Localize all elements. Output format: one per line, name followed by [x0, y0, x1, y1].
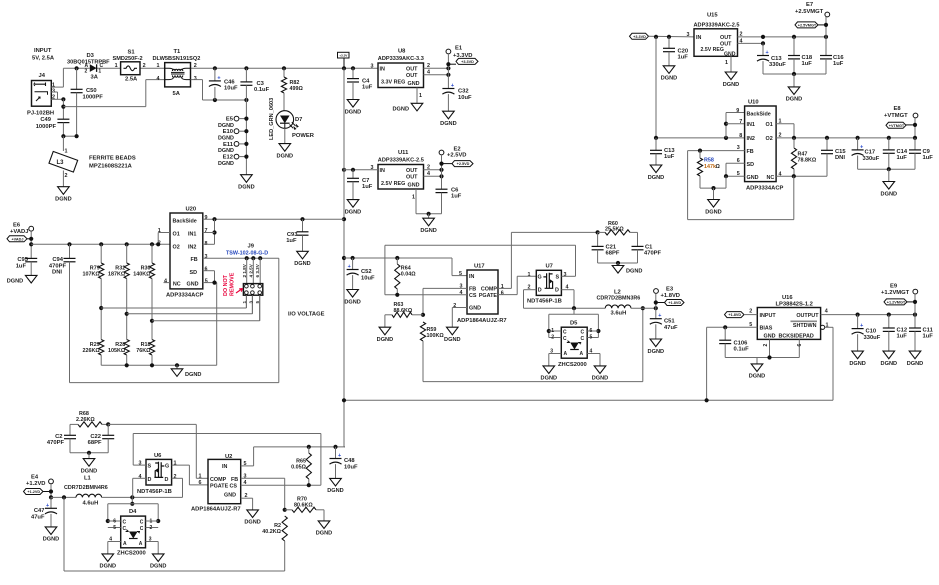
svg-text:ADP1864AUJZ-R7: ADP1864AUJZ-R7	[457, 318, 507, 324]
svg-text:U7: U7	[546, 264, 553, 270]
svg-text:O2: O2	[173, 244, 180, 250]
svg-text:CDR7D2BMN4R6: CDR7D2BMN4R6	[64, 485, 108, 491]
svg-text:2 1.8V: 2 1.8V	[242, 263, 247, 277]
svg-text:DGND: DGND	[907, 361, 923, 367]
svg-text:ADP3339AKC-3.3: ADP3339AKC-3.3	[378, 56, 424, 62]
svg-text:CS: CS	[230, 483, 238, 489]
svg-text:147k: 147k	[704, 164, 716, 170]
svg-text:BackSide: BackSide	[173, 218, 197, 224]
svg-text:U20: U20	[186, 207, 197, 213]
svg-text:1000PF: 1000PF	[83, 95, 104, 101]
svg-text:+: +	[217, 75, 220, 81]
svg-text:6: 6	[113, 518, 116, 524]
svg-text:ADP3339AKC-2.5: ADP3339AKC-2.5	[378, 158, 424, 164]
svg-text:+: +	[658, 313, 661, 319]
svg-text:0.1uF: 0.1uF	[734, 347, 750, 353]
svg-text:1: 1	[150, 518, 153, 524]
svg-text:5: 5	[205, 279, 208, 285]
svg-text:C49: C49	[40, 117, 51, 123]
svg-text:40.2KΩ: 40.2KΩ	[262, 529, 281, 535]
svg-text:3: 3	[687, 32, 690, 38]
svg-text:D: D	[555, 288, 559, 294]
svg-text:DGND: DGND	[218, 148, 234, 154]
svg-text:7: 7	[739, 119, 742, 125]
svg-text:10uF: 10uF	[458, 95, 472, 101]
svg-text:E5: E5	[226, 117, 234, 123]
svg-text:4: 4	[157, 76, 160, 82]
svg-text:FB: FB	[231, 477, 238, 483]
svg-text:S: S	[148, 464, 152, 470]
svg-text:+1.8VD: +1.8VD	[728, 313, 741, 317]
svg-text:BIAS: BIAS	[760, 326, 773, 332]
svg-text:D4: D4	[129, 509, 137, 515]
svg-text:5A: 5A	[173, 91, 181, 97]
svg-text:+1.8VD: +1.8VD	[668, 301, 681, 305]
svg-text:DGND: DGND	[218, 123, 234, 129]
svg-text:470PF: 470PF	[47, 440, 65, 446]
svg-text:IN: IN	[380, 67, 385, 73]
svg-text:D3: D3	[87, 53, 95, 59]
svg-text:E9: E9	[890, 284, 898, 290]
svg-text:D: D	[148, 477, 152, 483]
svg-text:FB: FB	[191, 257, 198, 263]
svg-text:2: 2	[143, 63, 146, 69]
svg-text:DGND: DGND	[7, 278, 23, 284]
svg-text:ADP3334ACP: ADP3334ACP	[166, 293, 204, 299]
svg-text:DGND: DGND	[327, 488, 343, 494]
svg-text:1: 1	[528, 272, 531, 278]
svg-text:C22: C22	[90, 434, 101, 440]
svg-text:1: 1	[98, 68, 101, 74]
svg-text:2: 2	[150, 525, 153, 531]
svg-text:+VADJ: +VADJ	[10, 229, 28, 235]
svg-text:E10: E10	[223, 129, 233, 135]
svg-text:1uF: 1uF	[678, 55, 689, 61]
svg-text:330uF: 330uF	[769, 62, 786, 68]
svg-text:68PF: 68PF	[88, 440, 102, 446]
svg-text:GND: GND	[469, 306, 481, 312]
svg-text:2.5A: 2.5A	[125, 76, 138, 82]
svg-text:MPZ1608S221A: MPZ1608S221A	[89, 164, 133, 170]
svg-text:D: D	[165, 477, 169, 483]
svg-text:DGND: DGND	[43, 537, 59, 543]
svg-text:DGND: DGND	[244, 520, 260, 526]
svg-text:1: 1	[725, 60, 728, 66]
svg-text:E11: E11	[223, 142, 234, 148]
svg-text:DGND: DGND	[316, 531, 332, 537]
svg-text:U2: U2	[225, 454, 232, 460]
svg-text:+2.5VD: +2.5VD	[447, 153, 467, 159]
svg-text:499Ω: 499Ω	[290, 86, 304, 92]
svg-text:1uF: 1uF	[802, 61, 813, 67]
svg-text:+3.3VD: +3.3VD	[461, 60, 474, 64]
svg-text:0.1uF: 0.1uF	[254, 87, 270, 93]
svg-text:+2.5VD: +2.5VD	[457, 162, 470, 166]
svg-text:IN2: IN2	[747, 136, 755, 142]
svg-text:GND: GND	[408, 81, 420, 87]
svg-text:IN: IN	[696, 35, 701, 41]
svg-text:1uF: 1uF	[362, 85, 373, 91]
svg-text:DGND: DGND	[150, 564, 166, 570]
svg-text:1uF: 1uF	[16, 264, 27, 270]
svg-text:105KΩ: 105KΩ	[108, 348, 126, 354]
svg-text:U11: U11	[398, 150, 409, 156]
svg-text:5: 5	[459, 271, 462, 277]
svg-text:226KΩ: 226KΩ	[82, 348, 100, 354]
svg-text:1uF: 1uF	[451, 194, 462, 200]
svg-text:INPUT: INPUT	[34, 48, 52, 54]
svg-text:IN2: IN2	[188, 244, 196, 250]
svg-text:INPUT: INPUT	[760, 313, 777, 319]
svg-text:C48: C48	[344, 458, 355, 464]
svg-text:1uF: 1uF	[897, 155, 908, 161]
svg-text:A: A	[139, 541, 143, 547]
svg-text:30BQ015TRPBF: 30BQ015TRPBF	[67, 59, 110, 65]
svg-text:9: 9	[205, 215, 208, 221]
svg-text:OUT: OUT	[406, 168, 418, 174]
svg-text:DGND: DGND	[440, 121, 456, 127]
svg-text:+VTMGT: +VTMGT	[884, 113, 908, 119]
svg-text:DGND: DGND	[238, 185, 254, 191]
svg-text:C51: C51	[664, 318, 675, 324]
svg-text:3: 3	[248, 301, 253, 304]
svg-text:9: 9	[736, 108, 739, 114]
svg-text:+1.2VMGT: +1.2VMGT	[887, 301, 906, 305]
svg-text:330uF: 330uF	[864, 335, 881, 341]
svg-text:2: 2	[194, 63, 197, 69]
svg-text:R58: R58	[704, 158, 714, 164]
svg-text:D: D	[538, 288, 542, 294]
svg-text:COMP: COMP	[481, 287, 498, 293]
svg-text:NDT456P-1B: NDT456P-1B	[527, 299, 562, 305]
svg-text:DNI: DNI	[835, 155, 845, 161]
svg-text:PJ-102BH: PJ-102BH	[27, 111, 54, 117]
svg-text:IN1: IN1	[188, 231, 196, 237]
svg-text:C94: C94	[52, 257, 63, 263]
svg-text:C: C	[563, 336, 567, 342]
svg-text:88.6KΩ: 88.6KΩ	[394, 308, 413, 314]
svg-text:DGND: DGND	[420, 228, 436, 234]
svg-text:1: 1	[501, 284, 504, 290]
svg-text:G: G	[538, 274, 542, 280]
svg-text:E12: E12	[223, 155, 233, 161]
svg-text:C95: C95	[17, 257, 28, 263]
svg-text:A: A	[564, 351, 568, 357]
svg-text:6 3.3V: 6 3.3V	[255, 263, 260, 277]
svg-text:6: 6	[501, 290, 504, 296]
svg-text:O2: O2	[766, 136, 773, 142]
svg-text:DGND: DGND	[344, 299, 360, 305]
svg-text:C10: C10	[866, 329, 877, 335]
svg-text:C2: C2	[55, 434, 62, 440]
svg-text:470PF: 470PF	[644, 251, 662, 257]
svg-text:LP38842S-1.2: LP38842S-1.2	[776, 301, 813, 307]
svg-text:8: 8	[739, 133, 742, 139]
svg-text:BCKSIDEPAD: BCKSIDEPAD	[779, 334, 814, 340]
svg-text:2: 2	[763, 344, 769, 347]
svg-text:+2.5VMGT: +2.5VMGT	[795, 9, 824, 15]
svg-text:+: +	[766, 50, 769, 56]
svg-text:S: S	[556, 274, 560, 280]
svg-text:107KΩ: 107KΩ	[82, 272, 100, 278]
svg-text:I/O VOLTAGE: I/O VOLTAGE	[288, 312, 325, 318]
svg-text:L3: L3	[57, 160, 65, 166]
svg-text:1: 1	[65, 149, 68, 155]
svg-text:6: 6	[590, 328, 593, 334]
svg-text:+2.5VMGT: +2.5VMGT	[798, 24, 817, 28]
svg-text:+3.3VD: +3.3VD	[633, 35, 646, 39]
svg-text:REMOVE: REMOVE	[230, 272, 236, 296]
svg-text:3: 3	[205, 254, 208, 260]
svg-text:GND: GND	[764, 334, 776, 340]
svg-text:NC: NC	[173, 281, 181, 287]
svg-text:D5: D5	[570, 321, 578, 327]
svg-text:J9: J9	[248, 244, 255, 250]
svg-text:5: 5	[113, 525, 116, 531]
svg-text:+: +	[451, 83, 454, 89]
svg-text:DGND: DGND	[849, 361, 865, 367]
svg-text:3: 3	[737, 145, 740, 151]
svg-text:O1: O1	[173, 231, 180, 237]
svg-text:ZHCS2000: ZHCS2000	[117, 551, 146, 557]
svg-text:+: +	[860, 144, 863, 150]
svg-text:DGND: DGND	[294, 261, 310, 267]
svg-text:E4: E4	[31, 475, 39, 481]
svg-text:GND: GND	[187, 281, 199, 287]
svg-text:A: A	[123, 541, 127, 547]
svg-text:1: 1	[419, 93, 422, 99]
svg-text:1000PF: 1000PF	[36, 124, 57, 130]
svg-text:DGND: DGND	[218, 136, 234, 142]
svg-text:+1.2VD: +1.2VD	[26, 481, 46, 487]
svg-text:DGND: DGND	[218, 161, 234, 167]
svg-text:1uF: 1uF	[833, 61, 844, 67]
svg-text:6: 6	[199, 480, 202, 486]
svg-text:IN: IN	[380, 168, 385, 174]
svg-text:1uF: 1uF	[923, 334, 934, 340]
svg-text:4 2.5V: 4 2.5V	[248, 263, 253, 277]
svg-text:1: 1	[242, 301, 247, 304]
svg-text:80.6KΩ: 80.6KΩ	[294, 503, 313, 509]
svg-text:3: 3	[371, 63, 374, 69]
svg-text:3: 3	[564, 272, 567, 278]
svg-text:4: 4	[164, 279, 167, 285]
svg-text:GND: GND	[224, 493, 236, 499]
svg-text:2: 2	[65, 173, 68, 179]
svg-text:OUT: OUT	[720, 35, 732, 41]
svg-text:Ω: Ω	[716, 164, 721, 170]
svg-text:+1.2VD: +1.2VD	[27, 490, 40, 494]
svg-text:DGND: DGND	[626, 269, 642, 275]
svg-text:+1.2VMGT: +1.2VMGT	[881, 290, 910, 296]
svg-text:2: 2	[749, 309, 752, 315]
svg-text:G: G	[165, 464, 169, 470]
svg-text:OUT: OUT	[406, 174, 418, 180]
svg-text:COMP: COMP	[210, 477, 227, 483]
svg-text:CDR7D2BMN3R6: CDR7D2BMN3R6	[597, 296, 641, 302]
svg-text:47uF: 47uF	[664, 325, 678, 331]
svg-text:2: 2	[85, 68, 88, 74]
svg-text:6: 6	[205, 266, 208, 272]
svg-text:C47: C47	[34, 508, 45, 514]
svg-text:10uF: 10uF	[224, 86, 238, 92]
svg-text:PGATE: PGATE	[479, 293, 498, 299]
svg-text:330uF: 330uF	[863, 156, 880, 162]
svg-text:U17: U17	[474, 263, 485, 269]
svg-text:S1: S1	[128, 50, 136, 56]
svg-text:ZHCS2000: ZHCS2000	[558, 362, 587, 368]
svg-text:1: 1	[551, 328, 554, 334]
svg-text:E7: E7	[806, 2, 813, 8]
svg-text:OUT: OUT	[406, 73, 418, 79]
svg-text:DGND: DGND	[345, 109, 361, 115]
svg-text:+VTMGT: +VTMGT	[889, 124, 905, 128]
svg-text:4: 4	[825, 308, 828, 314]
svg-text:ADP1864AUJZ-R7: ADP1864AUJZ-R7	[191, 507, 241, 513]
svg-text:DGND: DGND	[723, 82, 739, 88]
svg-text:BackSide: BackSide	[747, 112, 771, 118]
svg-text:DNI: DNI	[52, 270, 62, 276]
svg-text:NC: NC	[767, 175, 775, 181]
svg-text:DGND: DGND	[185, 372, 201, 378]
svg-text:2: 2	[453, 303, 456, 309]
svg-text:78.8KΩ: 78.8KΩ	[798, 158, 817, 164]
svg-text:C13: C13	[771, 56, 782, 62]
svg-text:47uF: 47uF	[31, 515, 45, 521]
svg-text:ADP3339AKC-2.5: ADP3339AKC-2.5	[694, 23, 740, 29]
svg-text:2: 2	[551, 335, 554, 341]
svg-text:187KΩ: 187KΩ	[108, 272, 126, 278]
svg-text:GND: GND	[408, 183, 420, 189]
svg-text:1uF: 1uF	[664, 154, 675, 160]
svg-text:SHTDWN: SHTDWN	[793, 323, 817, 329]
svg-text:1: 1	[115, 63, 118, 69]
svg-text:FERRITE BEADS: FERRITE BEADS	[89, 156, 136, 162]
svg-text:3: 3	[52, 88, 55, 94]
svg-text:10uF: 10uF	[344, 465, 358, 471]
svg-text:A: A	[580, 351, 584, 357]
svg-text:D7: D7	[295, 117, 302, 123]
svg-text:C32: C32	[458, 89, 469, 95]
svg-text:2.5V REG: 2.5V REG	[701, 47, 724, 53]
svg-text:1: 1	[157, 63, 160, 69]
svg-text:68PF: 68PF	[606, 251, 620, 257]
svg-text:IN: IN	[222, 464, 227, 470]
svg-text:POWER: POWER	[292, 133, 315, 139]
svg-text:T1: T1	[174, 49, 182, 55]
svg-text:0.05Ω: 0.05Ω	[291, 465, 306, 471]
svg-text:J4: J4	[39, 73, 46, 79]
svg-text:U10: U10	[748, 100, 759, 106]
svg-text:0.04Ω: 0.04Ω	[401, 272, 416, 278]
svg-text:GND: GND	[747, 175, 759, 181]
svg-text:C: C	[140, 526, 144, 532]
svg-text:7: 7	[205, 228, 208, 234]
svg-text:+VADJ: +VADJ	[11, 237, 23, 241]
svg-text:DGND: DGND	[648, 175, 664, 181]
svg-text:E1: E1	[455, 45, 463, 51]
svg-text:NDT456P-1B: NDT456P-1B	[137, 489, 172, 495]
svg-text:TSW-102-08-G-D: TSW-102-08-G-D	[226, 251, 268, 257]
svg-text:DGND: DGND	[661, 76, 677, 82]
svg-text:CS: CS	[469, 293, 477, 299]
svg-text:5: 5	[590, 335, 593, 341]
svg-text:ADP3334ACP: ADP3334ACP	[746, 185, 784, 191]
svg-text:GND: GND	[724, 51, 736, 57]
svg-text:DGND: DGND	[749, 374, 765, 380]
svg-text:1: 1	[412, 195, 415, 201]
svg-text:76KΩ: 76KΩ	[136, 348, 151, 354]
svg-text:6: 6	[797, 344, 803, 347]
svg-text:OUT: OUT	[406, 66, 418, 72]
svg-text:DGND: DGND	[345, 209, 361, 215]
svg-text:DGND: DGND	[541, 376, 557, 382]
svg-text:DGND: DGND	[592, 376, 608, 382]
svg-text:+: +	[348, 264, 351, 270]
svg-text:DGND: DGND	[881, 191, 897, 197]
svg-text:U8: U8	[398, 49, 406, 55]
svg-text:+3.3VD: +3.3VD	[453, 53, 473, 59]
svg-text:C: C	[123, 520, 127, 526]
svg-text:+: +	[338, 453, 341, 459]
svg-text:SD: SD	[190, 270, 198, 276]
svg-text:DLW5BSN191SQ2: DLW5BSN191SQ2	[153, 56, 201, 62]
svg-text:1uF: 1uF	[923, 155, 934, 161]
svg-text:FB: FB	[469, 287, 476, 293]
svg-text:C17: C17	[865, 149, 876, 155]
svg-text:3: 3	[194, 76, 197, 82]
svg-text:PGATE: PGATE	[210, 483, 229, 489]
svg-text:SD: SD	[747, 162, 755, 168]
svg-text:DGND: DGND	[786, 97, 802, 103]
svg-text:2: 2	[174, 474, 177, 480]
svg-text:2.5V REG: 2.5V REG	[381, 181, 405, 187]
svg-text:10uF: 10uF	[361, 276, 375, 282]
svg-text:C: C	[563, 330, 567, 336]
svg-text:C: C	[581, 336, 585, 342]
svg-text:1: 1	[199, 474, 202, 480]
svg-text:3A: 3A	[91, 74, 99, 80]
svg-text:25.5KΩ: 25.5KΩ	[605, 227, 624, 233]
svg-text:DGND: DGND	[55, 197, 71, 203]
svg-text:LED_GRN_0603: LED_GRN_0603	[269, 98, 275, 140]
svg-text:+: +	[860, 323, 863, 329]
svg-text:+: +	[46, 503, 49, 509]
svg-text:L2: L2	[614, 289, 621, 295]
svg-text:L1: L1	[84, 475, 92, 481]
svg-text:C50: C50	[86, 88, 97, 94]
svg-text:DGND: DGND	[444, 337, 460, 343]
svg-text:OUTPUT: OUTPUT	[796, 313, 819, 319]
svg-text:IN1: IN1	[747, 122, 755, 128]
svg-text:C: C	[581, 330, 585, 336]
svg-text:O1: O1	[766, 122, 773, 128]
svg-text:5: 5	[255, 301, 260, 304]
svg-text:DGND: DGND	[705, 209, 721, 215]
svg-text:E3: E3	[666, 286, 674, 292]
svg-text:U16: U16	[782, 295, 793, 301]
svg-text:DGND: DGND	[277, 153, 293, 159]
svg-text:E8: E8	[894, 106, 902, 112]
svg-text:4: 4	[139, 474, 142, 480]
svg-text:4.6uH: 4.6uH	[83, 500, 99, 506]
svg-text:1uF: 1uF	[362, 184, 373, 190]
svg-text:E6: E6	[13, 223, 21, 229]
svg-text:+1.8VD: +1.8VD	[661, 293, 681, 299]
svg-text:3.6uH: 3.6uH	[611, 311, 627, 317]
svg-text:DGND: DGND	[393, 106, 409, 112]
svg-text:C: C	[140, 520, 144, 526]
